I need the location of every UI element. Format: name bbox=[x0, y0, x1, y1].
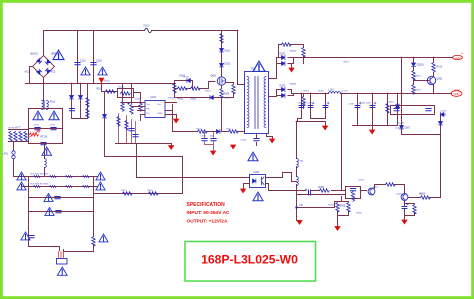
resistor R210 bbox=[412, 71, 415, 81]
wire TL431 box bbox=[346, 187, 361, 199]
wire pass transistor branch bbox=[433, 58, 435, 94]
junction dot bbox=[325, 93, 327, 95]
electrolytic cap C205 bbox=[370, 102, 376, 107]
resistor vertical below IC 2 bbox=[125, 121, 128, 131]
warning triangle row1 right bbox=[96, 172, 105, 180]
junction dot rail x221 bbox=[221, 30, 223, 32]
wire opto out lower bbox=[266, 184, 306, 191]
resistor R113 on y193 run bbox=[149, 192, 159, 195]
diode D102 bbox=[220, 64, 224, 67]
wire zener branch bbox=[413, 58, 415, 94]
junction dot bbox=[296, 121, 298, 123]
aux coil upper bbox=[297, 159, 299, 168]
bridge diode 1 bbox=[37, 59, 42, 64]
X-capacitor CX2 bbox=[51, 128, 56, 130]
warning triangle near bottom left bbox=[21, 232, 30, 240]
wire TL431 to transistor bbox=[361, 190, 367, 192]
wire loop top bbox=[105, 156, 183, 158]
svg-text:Q302: Q302 bbox=[397, 194, 403, 196]
svg-text:CY01: CY01 bbox=[34, 125, 40, 127]
svg-text:C106: C106 bbox=[201, 136, 207, 138]
wire cap group 2 drops bbox=[353, 94, 398, 126]
varistor cluster top rail bbox=[9, 129, 28, 131]
resistor R111 on y131 bbox=[229, 130, 239, 133]
junction dot bbox=[397, 93, 399, 95]
diode left column bbox=[400, 126, 404, 129]
MOSFET internal bars bbox=[220, 78, 225, 83]
divider resistor Rb bbox=[347, 203, 350, 213]
junction dot bbox=[413, 57, 415, 59]
red ground cap group2 bbox=[370, 130, 375, 134]
resistor vertical R104 bbox=[121, 102, 124, 112]
svg-text:C102: C102 bbox=[96, 60, 102, 63]
junction dot bbox=[401, 57, 403, 59]
snubber middle row bbox=[175, 88, 209, 90]
svg-text:C109: C109 bbox=[241, 140, 247, 142]
junction dot bbox=[401, 93, 403, 95]
capacitor row4 bbox=[56, 211, 61, 213]
wire feedback vertical bbox=[341, 94, 343, 191]
X-capacitor CX1 bbox=[35, 128, 40, 130]
wire upper diode pair link bbox=[277, 58, 294, 64]
resistor R102 on chain bbox=[106, 90, 116, 93]
svg-text:C206: C206 bbox=[349, 104, 355, 106]
wire lower rail after coil bbox=[341, 93, 452, 95]
model number box bbox=[185, 242, 316, 282]
red ground aux bottom bbox=[297, 221, 302, 225]
warning triangle below C102 bbox=[98, 67, 107, 75]
diode on bottom wire bbox=[210, 96, 213, 100]
warning triangle below transformer bbox=[248, 152, 258, 161]
svg-text:U301: U301 bbox=[359, 180, 365, 182]
red ground divider bbox=[335, 227, 340, 231]
wire cap group1 gnd stub bbox=[325, 122, 327, 126]
bias diode 1 bbox=[70, 96, 74, 99]
svg-text:GND: GND bbox=[158, 113, 163, 115]
connector LF01 circle 1 bbox=[12, 151, 15, 154]
wire rail to IC region bbox=[123, 84, 141, 104]
optocoupler transistor mark bbox=[262, 177, 265, 185]
junction dot bbox=[387, 93, 389, 95]
bridge rectifier BD101 outline bbox=[33, 56, 55, 78]
junction dot bbox=[357, 93, 359, 95]
svg-text:D201: D201 bbox=[280, 53, 286, 56]
IC pin wires right bbox=[165, 103, 177, 119]
startup feed vertical bbox=[104, 119, 106, 157]
svg-text:168P-L3L025-W0: 168P-L3L025-W0 bbox=[201, 253, 298, 267]
resistor vertical below IC 1 bbox=[117, 117, 120, 127]
wire bottom left to connector bbox=[29, 247, 60, 251]
MOSFET Q101 bbox=[217, 77, 225, 85]
warning triangle near bridge bbox=[53, 50, 64, 59]
junction dot bbox=[433, 93, 435, 95]
pass transistor Q201 bbox=[427, 76, 435, 84]
resistor R201 bbox=[34, 175, 41, 177]
snubber resistor vertical bbox=[173, 84, 176, 94]
junction dot bbox=[101, 83, 103, 85]
gate riser wire bbox=[209, 82, 216, 89]
svg-text:CY02: CY02 bbox=[50, 125, 56, 127]
svg-text:D202: D202 bbox=[280, 85, 286, 88]
wire Q302 emitter chain bbox=[405, 201, 415, 220]
MOSFET source sense resistor bbox=[220, 89, 223, 99]
PWM IC U101 box bbox=[145, 101, 165, 118]
svg-text:R112: R112 bbox=[122, 190, 128, 192]
snubber resistor 2 bbox=[191, 87, 201, 90]
inductor L102 vertical bbox=[45, 159, 47, 168]
wire Q302 out bbox=[408, 197, 441, 199]
fb resistor horizontal bbox=[320, 189, 330, 192]
svg-text:R104: R104 bbox=[105, 81, 111, 83]
SECTION: secondary rectifier and output rails bbox=[269, 45, 453, 198]
svg-text:R212: R212 bbox=[437, 66, 443, 69]
bias loop verticals bbox=[72, 84, 88, 119]
wire top rail down to transformer bbox=[238, 31, 245, 85]
lower snubber resistor vertical bbox=[302, 97, 305, 107]
transistor Q301 bars bbox=[370, 188, 373, 195]
warning triangle above transformer bbox=[253, 61, 265, 71]
wire row2 bbox=[23, 186, 98, 188]
lower snubber stub bbox=[303, 94, 305, 109]
wire right vertical bbox=[93, 177, 95, 237]
svg-text:D207: D207 bbox=[405, 127, 411, 130]
svg-text:R214: R214 bbox=[344, 62, 350, 64]
red ground cap group1 bbox=[323, 126, 328, 130]
electrolytic cap C203 bbox=[323, 102, 329, 107]
common mode choke winding right bbox=[47, 101, 49, 110]
svg-text:CS: CS bbox=[147, 113, 151, 115]
wire long feedback horizontal bbox=[137, 157, 250, 178]
aux coil lower bbox=[297, 177, 299, 186]
optocoupler LED bbox=[253, 179, 256, 183]
wire fb node horizontal bbox=[297, 207, 335, 209]
row junction dots bbox=[45, 176, 78, 187]
red ground opto bbox=[241, 189, 246, 193]
red DC marker arrow bbox=[99, 78, 104, 83]
svg-text:D103: D103 bbox=[184, 77, 190, 79]
resistor R212 bbox=[432, 63, 435, 73]
svg-text:C101: C101 bbox=[80, 60, 86, 63]
lower rectifier diode D204 bbox=[282, 94, 285, 98]
svg-text:Q201: Q201 bbox=[437, 78, 444, 81]
svg-text:R102: R102 bbox=[97, 88, 103, 91]
red ground 1 bbox=[169, 146, 174, 150]
svg-text:D102: D102 bbox=[225, 63, 231, 66]
resistor vertical R105 bbox=[130, 105, 133, 115]
wire upper diodes out bbox=[288, 57, 453, 59]
svg-text:SPECIFICATION: SPECIFICATION bbox=[187, 202, 226, 208]
svg-text:AC2: AC2 bbox=[51, 71, 56, 74]
wire transformer to lower diode bbox=[269, 90, 282, 97]
right pulldown wires bbox=[226, 83, 234, 98]
resistor R203 bbox=[66, 175, 73, 177]
wire DC rail y83 bbox=[26, 83, 176, 85]
wire resistor to connector bbox=[64, 245, 94, 252]
wire aux vertical lower bbox=[297, 185, 300, 221]
bridge diode 2 bbox=[45, 60, 50, 65]
upper snubber resistor bbox=[282, 43, 292, 46]
svg-text:Q601: Q601 bbox=[211, 75, 218, 78]
warning triangle near L2 bbox=[42, 147, 52, 155]
output filter coil L201 bbox=[329, 92, 341, 94]
svg-text:R107: R107 bbox=[206, 91, 212, 93]
diode D103 on y131 bbox=[217, 130, 220, 134]
cap at Q302 bbox=[402, 203, 408, 208]
resistor R107 on drain bbox=[220, 34, 223, 44]
TL431 cap bbox=[350, 189, 355, 191]
resistor R112 on y193 run bbox=[123, 192, 133, 195]
red ground transformer bbox=[270, 139, 275, 143]
primary ground rail under IC bbox=[116, 144, 172, 146]
thermistor arrow bbox=[29, 131, 40, 138]
wire loop mid vertical bbox=[136, 144, 138, 157]
transistor Q302 bbox=[401, 194, 408, 201]
bias resistor 2 bbox=[86, 109, 89, 119]
svg-text:R216: R216 bbox=[416, 90, 422, 92]
svg-text:R108: R108 bbox=[225, 98, 231, 100]
transformer secondary winding bbox=[264, 77, 266, 128]
SECTION: small value labels bbox=[17, 51, 447, 215]
upper rectifier diode D201 bbox=[282, 56, 285, 60]
snubber bottom wire bbox=[175, 97, 234, 99]
red ground Q302 bbox=[402, 220, 407, 224]
svg-text:Q301: Q301 bbox=[373, 187, 379, 189]
output connector oval +12V bbox=[453, 55, 463, 59]
junction dot bbox=[71, 83, 73, 85]
svg-text:BD101: BD101 bbox=[31, 53, 39, 56]
resistor R206 bbox=[50, 185, 57, 187]
resistor R205 bbox=[34, 185, 41, 187]
junction dot rail x93 bbox=[93, 30, 95, 32]
snubber diode bbox=[187, 79, 190, 83]
startup feed diode bbox=[103, 115, 107, 118]
capacitor C105 below transformer bbox=[254, 139, 259, 141]
output connector oval ground bbox=[451, 91, 462, 97]
svg-text:D101: D101 bbox=[225, 50, 231, 53]
svg-text:GND: GND bbox=[454, 92, 460, 96]
junction dot bbox=[372, 93, 374, 95]
SECTION: AC input / primary top bbox=[26, 31, 238, 101]
svg-text:FB: FB bbox=[300, 204, 303, 207]
wire bottom resistor run bbox=[94, 193, 183, 195]
transistor Q302 bars bbox=[403, 194, 406, 201]
warning triangle row4 bbox=[45, 208, 54, 216]
junction dot bbox=[43, 83, 45, 85]
varistor RV4 bbox=[24, 132, 27, 142]
resistor right of Q302 bbox=[413, 205, 416, 215]
bridge diode 3 bbox=[45, 68, 50, 73]
resistor R209 vertical bbox=[386, 104, 389, 114]
snubber loop top bbox=[175, 81, 193, 89]
svg-text:RT101: RT101 bbox=[41, 136, 49, 139]
fb out resistor bbox=[421, 196, 431, 199]
svg-text:R21 R22 R23 R24: R21 R22 R23 R24 bbox=[31, 174, 50, 176]
wire drain vertical bbox=[221, 31, 223, 77]
wire bridge left to down bbox=[30, 67, 33, 84]
svg-text:AC1: AC1 bbox=[25, 71, 30, 74]
cap below transformer bbox=[256, 134, 258, 146]
junction dot fb node bbox=[295, 206, 297, 208]
wire lower rail to coil bbox=[288, 90, 329, 94]
resistor R202 bbox=[50, 175, 57, 177]
wire cap group 1 drops bbox=[297, 94, 326, 122]
junction dot bbox=[80, 83, 82, 85]
svg-text:D208: D208 bbox=[399, 123, 405, 125]
warning triangle below C101 bbox=[81, 67, 90, 75]
bridge diode 4 bbox=[37, 69, 42, 74]
svg-text:R305: R305 bbox=[357, 213, 363, 215]
svg-text:C204 C205: C204 C205 bbox=[361, 103, 372, 105]
junction dot bbox=[301, 93, 303, 95]
transistor Q201 bars bbox=[430, 77, 434, 86]
warning triangle in EMI box 2 bbox=[49, 111, 59, 120]
wire aux vertical middle bbox=[296, 167, 298, 177]
warning triangle row2 right bbox=[96, 182, 105, 190]
wire transformer to upper diode bbox=[269, 58, 282, 79]
wire cap branch 2 bbox=[93, 31, 95, 84]
warning triangle row3 bbox=[44, 194, 53, 202]
warning triangle row1 left bbox=[17, 172, 26, 180]
diode right column 2 bbox=[439, 122, 443, 125]
svg-text:R105: R105 bbox=[119, 87, 125, 89]
wire connector down to rows bbox=[14, 159, 23, 177]
upper rectifier diode D202 bbox=[282, 62, 285, 66]
svg-text:R111: R111 bbox=[227, 129, 233, 131]
svg-text:R202: R202 bbox=[319, 91, 325, 93]
startup drop wire bbox=[102, 84, 118, 117]
electrolytic cap C204 bbox=[355, 102, 361, 107]
svg-text:ZD201: ZD201 bbox=[417, 64, 425, 67]
SECTION: discharge resistor rows bottom-left bbox=[23, 177, 98, 252]
resistor R204 bbox=[83, 175, 90, 177]
divider resistor Ra bbox=[336, 203, 339, 213]
lower rectifier diode D203 bbox=[282, 88, 285, 92]
capacitor C107 bbox=[211, 139, 216, 141]
wire bridge top stub bbox=[43, 31, 45, 56]
resistor R208 bbox=[83, 185, 90, 187]
red ground below IC right bbox=[174, 119, 179, 123]
fb cap diamond bbox=[305, 189, 310, 195]
upper fb resistor bbox=[386, 183, 396, 186]
wire upper snubber loop bbox=[279, 45, 304, 64]
svg-text:LF102: LF102 bbox=[49, 101, 56, 104]
wire lower diode pair link bbox=[277, 94, 294, 96]
svg-text:L301: L301 bbox=[299, 161, 305, 163]
svg-text:R213: R213 bbox=[389, 102, 395, 104]
capacitor C101 bbox=[75, 63, 80, 65]
common mode choke LF101 winding left bbox=[42, 101, 44, 110]
wire box to L102 bbox=[44, 144, 46, 177]
svg-text:C108: C108 bbox=[135, 99, 141, 101]
wire opto out upper bbox=[266, 173, 297, 182]
snubber resistor 1 bbox=[178, 87, 188, 90]
wire right component box bbox=[391, 106, 435, 115]
warning triangle right column bbox=[99, 234, 108, 242]
wire bridge bottom stub bbox=[43, 78, 45, 84]
opto gnd stub bbox=[244, 184, 250, 189]
electrolytic cap C201 bbox=[299, 102, 305, 107]
wire upper gnd stub bbox=[291, 64, 293, 68]
junction dot bbox=[237, 30, 239, 32]
resistor vertical right column bbox=[92, 237, 95, 247]
svg-text:OUTPUT: +12V/2A: OUTPUT: +12V/2A bbox=[187, 219, 228, 225]
bias diode 2 bbox=[79, 96, 83, 99]
svg-text:+12V-G: +12V-G bbox=[453, 90, 461, 92]
right box inner mark 1 bbox=[394, 109, 399, 111]
svg-text:R106: R106 bbox=[169, 98, 175, 100]
wire aux vertical upper bbox=[296, 122, 298, 159]
varistor RV2 bbox=[14, 132, 17, 142]
IC pin wires left bbox=[123, 103, 146, 121]
varistor RV3 bbox=[19, 132, 22, 142]
wire divider bottom bbox=[338, 212, 349, 227]
svg-text:R301: R301 bbox=[319, 186, 325, 189]
startup sub box bbox=[118, 89, 134, 98]
svg-text:L201: L201 bbox=[329, 89, 335, 92]
TL431 resistor bbox=[351, 192, 354, 202]
wire transistor base bbox=[414, 80, 430, 82]
wire top rail left bbox=[44, 30, 145, 32]
junction dot near IC top bbox=[128, 103, 130, 105]
wire cap branch 1 bbox=[77, 31, 79, 84]
svg-text:U201: U201 bbox=[254, 171, 260, 174]
bias cap bbox=[69, 109, 74, 111]
caps below y131 bbox=[205, 132, 214, 151]
svg-text:SB360: SB360 bbox=[290, 84, 297, 86]
fuse F1 bbox=[145, 28, 152, 33]
capacitor row3 bbox=[55, 197, 60, 199]
zener diode ZD201 bbox=[412, 63, 416, 66]
warning triangle row2 left bbox=[17, 182, 26, 190]
wire row3 bbox=[29, 197, 94, 199]
wire cap group2 gnd stub bbox=[372, 126, 374, 130]
transformer core bars bbox=[255, 77, 258, 129]
junction dots on output rails bbox=[43, 30, 435, 123]
capacitor C104 bbox=[133, 135, 138, 137]
right box inner mark 2 bbox=[426, 109, 431, 111]
SECTION: feedback network and optocoupler bbox=[94, 122, 441, 227]
junction dot bbox=[433, 57, 435, 59]
diode D205 up bbox=[396, 104, 400, 108]
red ground upper rectifier bbox=[289, 68, 294, 72]
wire varistor down bbox=[13, 142, 15, 151]
wire IC down to y131 node bbox=[173, 105, 245, 132]
svg-text:+12V: +12V bbox=[454, 56, 460, 60]
wire loop right vertical bbox=[182, 157, 184, 194]
svg-text:R110: R110 bbox=[197, 129, 203, 131]
transformer T101 box bbox=[245, 72, 269, 134]
X-capacitor CX3 bbox=[41, 143, 46, 145]
EMI box loop bbox=[29, 109, 63, 144]
caps below IC left column bbox=[119, 114, 136, 144]
resistor R207 bbox=[66, 185, 73, 187]
connector CON1 box bbox=[57, 259, 68, 265]
diode D101 bbox=[220, 49, 224, 52]
svg-text:D206: D206 bbox=[441, 114, 447, 117]
svg-text:R25 R26 R27 R28: R25 R26 R27 R28 bbox=[31, 184, 50, 186]
red ground 2 bbox=[211, 151, 216, 155]
transformer primary winding bbox=[247, 77, 249, 128]
svg-text:D207: D207 bbox=[396, 128, 402, 130]
junction dot bbox=[413, 93, 415, 95]
thermistor RT101 bbox=[30, 133, 39, 136]
svg-text:LF01: LF01 bbox=[3, 153, 9, 156]
wire right area verticals bbox=[402, 58, 441, 198]
capacitor C103 bbox=[129, 129, 134, 131]
svg-text:SB360: SB360 bbox=[290, 51, 297, 53]
bias resistor 1 bbox=[86, 98, 89, 108]
warning triangle below opto bbox=[253, 192, 263, 201]
